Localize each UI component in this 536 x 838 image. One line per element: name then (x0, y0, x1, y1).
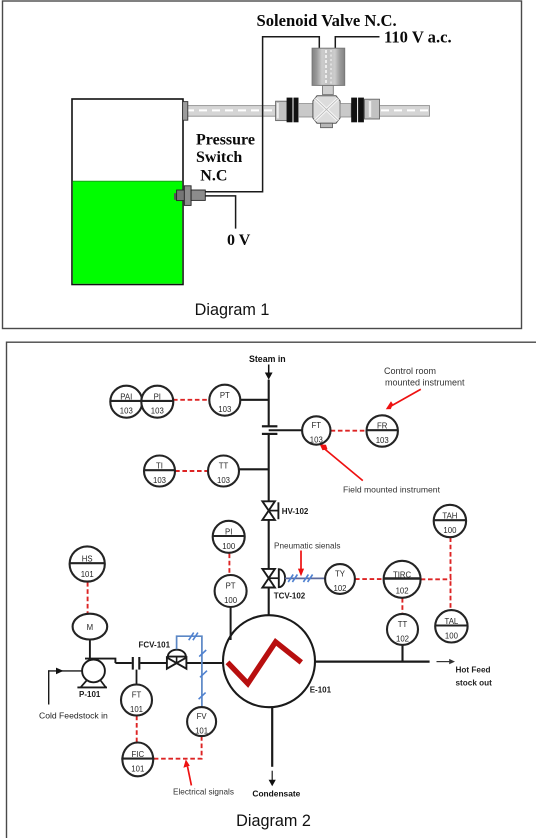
tank nozzle (183, 102, 188, 121)
instrument FR-103 (367, 415, 398, 446)
instrument TAL-100 (435, 610, 467, 642)
signal dashed TIRC-102 to TT-102 (401, 598, 403, 614)
svg-text:TT: TT (398, 620, 408, 629)
svg-text:Diagram 1: Diagram 1 (195, 301, 270, 319)
signal dashed PI-100 to PT-100 (228, 554, 230, 575)
instrument TAH-100 (434, 505, 466, 537)
instrument FV-101 (187, 707, 216, 736)
svg-text:Steam in: Steam in (249, 354, 286, 364)
svg-text:102: 102 (333, 584, 346, 593)
signal dashed TI-103 to TT-103 (175, 470, 208, 472)
hot feed pipe (315, 660, 430, 662)
red arrow pneumatic signals (300, 551, 302, 571)
signal dashed FT-103 to FR-103 (331, 430, 367, 432)
feed pipe segments (115, 662, 131, 664)
svg-text:FT: FT (132, 691, 142, 700)
instrument TIRC-102 (384, 561, 421, 598)
svg-text:101: 101 (130, 705, 143, 714)
svg-text:103: 103 (153, 476, 166, 485)
pneumatic hash marks on FCV line (189, 633, 207, 700)
svg-text:TI: TI (156, 462, 163, 471)
FE-101 flange bars (132, 657, 134, 670)
wire TT-103 branch (239, 468, 269, 470)
svg-text:TAL: TAL (445, 617, 459, 626)
svg-text:Pneumatic sienals: Pneumatic sienals (274, 542, 340, 551)
svg-text:Pressure: Pressure (196, 131, 255, 148)
wire W2 pressure switch to 0V (205, 196, 236, 229)
signal dashed FT-101 to FIC-101 (136, 716, 138, 743)
svg-text:TAH: TAH (442, 512, 457, 521)
svg-text:P-101: P-101 (79, 690, 101, 699)
svg-text:103: 103 (217, 476, 230, 485)
instrument TT-102 (387, 614, 418, 645)
svg-text:stock out: stock out (456, 679, 493, 688)
steam pipe (268, 380, 270, 426)
frame box 2 (7, 342, 536, 838)
svg-text:FR: FR (377, 422, 388, 431)
svg-text:103: 103 (120, 407, 133, 416)
hot feed arrow (437, 661, 451, 663)
signal dashed PI-103 to PT-103 (173, 399, 209, 401)
valve HV-102 (262, 501, 275, 520)
svg-text:PT: PT (226, 582, 236, 591)
pneumatic line TCV-102 to TY-102 (285, 577, 325, 579)
left flange bars (287, 98, 293, 123)
pipe left segment (183, 106, 276, 117)
signal dashed TAH-100 to TAL-100 (450, 537, 452, 610)
svg-text:Hot Feed: Hot Feed (456, 666, 491, 675)
signal dashed TY-102 to TIRC-102 (355, 578, 384, 580)
svg-text:103: 103 (310, 436, 323, 445)
right flange hub (365, 99, 380, 119)
pneumatic line FCV-101 to FV-101 (177, 636, 202, 707)
svg-text:100: 100 (445, 631, 459, 640)
svg-text:Cold Feedstock in: Cold Feedstock in (39, 711, 108, 721)
svg-text:TIRC: TIRC (393, 570, 412, 579)
svg-text:102: 102 (396, 634, 409, 643)
tank (72, 99, 183, 285)
svg-text:Diagram 2: Diagram 2 (236, 812, 311, 830)
right flange bars (351, 98, 357, 123)
orifice plate flanges (262, 425, 278, 427)
svg-text:110 V a.c.: 110 V a.c. (384, 28, 452, 47)
svg-text:FCV-101: FCV-101 (139, 640, 171, 649)
svg-text:M: M (87, 623, 94, 632)
svg-text:TT: TT (219, 462, 229, 471)
wire W3 solenoid to 110V (335, 37, 379, 50)
wire to FT-101 (136, 670, 138, 685)
svg-text:100: 100 (222, 542, 236, 551)
svg-text:101: 101 (131, 764, 144, 773)
pipe right segment (379, 106, 430, 117)
instrument FIC-101 (121, 743, 154, 777)
signal dashed TIRC-102 to alarm line (421, 578, 452, 580)
svg-text:Field mounted instrument: Field mounted instrument (343, 484, 441, 494)
wire orifice to FT-103 (269, 429, 303, 431)
instrument PT-103 (209, 385, 240, 416)
svg-text:103: 103 (151, 407, 164, 416)
instrument PAI-103 (110, 386, 142, 418)
valve bottom tab (321, 123, 333, 128)
svg-text:PT: PT (220, 391, 230, 400)
svg-text:100: 100 (224, 596, 238, 605)
red arrow electrical signals (188, 767, 192, 786)
svg-text:Switch: Switch (196, 149, 242, 166)
signal dashed FIC-101 to FV-101 (154, 736, 202, 758)
pneumatic hash marks on TCV line (288, 575, 312, 583)
wire PT-100 to exchanger (230, 607, 232, 640)
svg-text:101: 101 (81, 570, 94, 579)
wire PT-103 to pipe (240, 399, 269, 401)
instrument PI-103 (141, 386, 173, 418)
svg-text:PI: PI (154, 392, 161, 401)
motor M (73, 614, 108, 640)
valve outlet stub (340, 104, 351, 117)
svg-text:HV-102: HV-102 (282, 507, 309, 516)
valve inlet stub (299, 104, 314, 117)
svg-text:FV: FV (197, 712, 208, 721)
svg-text:102: 102 (396, 587, 409, 596)
instrument HS-101 (70, 546, 105, 581)
svg-text:0 V: 0 V (227, 232, 251, 249)
steam inlet arrow (268, 365, 270, 374)
pressure switch (174, 193, 178, 200)
pump P-101 (89, 640, 91, 659)
svg-text:mounted instrument: mounted instrument (385, 377, 465, 387)
solenoid stem (323, 85, 334, 94)
instrument TT-103 (208, 456, 239, 487)
svg-text:TY: TY (335, 570, 346, 579)
exchanger coil zigzag (228, 642, 302, 684)
svg-text:N.C: N.C (200, 168, 227, 185)
valve FCV-101 (167, 658, 187, 669)
svg-text:Electrical signals: Electrical signals (173, 788, 234, 797)
wire TT-102 to pipe (401, 645, 403, 662)
instrument TI-103 (144, 456, 175, 487)
svg-text:FT: FT (312, 421, 322, 430)
svg-text:E-101: E-101 (310, 685, 332, 694)
pipe highlight dashes (186, 109, 275, 111)
red arrow to FT-103 (324, 448, 363, 481)
tank liquid (green) (73, 181, 182, 283)
valve body (313, 96, 340, 123)
frame box 1 (3, 1, 522, 329)
svg-text:PI: PI (225, 527, 232, 536)
left flange hub (276, 101, 288, 120)
svg-text:100: 100 (443, 526, 457, 535)
signal dashed HS-101 to M (87, 582, 89, 614)
instrument PT-100 (215, 575, 247, 607)
red arrow to FR-103 (389, 389, 421, 407)
svg-text:Solenoid Valve N.C.: Solenoid Valve N.C. (257, 11, 397, 30)
svg-text:101: 101 (195, 727, 208, 736)
wire W1 pressure switch to solenoid (205, 37, 319, 192)
instrument FT-103 (302, 416, 330, 444)
heat exchanger E-101 (223, 615, 315, 707)
svg-text:Control room: Control room (384, 366, 436, 376)
condensate pipe (271, 707, 273, 767)
svg-text:FIC: FIC (132, 750, 145, 759)
instrument FT-101 (121, 685, 152, 716)
svg-text:Condensate: Condensate (252, 788, 300, 798)
suction line with arrow (49, 670, 83, 672)
svg-text:PAI: PAI (120, 392, 132, 401)
instrument PI-100 (213, 521, 245, 553)
valve TCV-102 (262, 569, 275, 588)
instrument TY-102 (325, 564, 355, 594)
svg-text:HS: HS (82, 555, 93, 564)
svg-text:103: 103 (376, 436, 389, 445)
svg-text:TCV-102: TCV-102 (274, 592, 306, 601)
svg-text:103: 103 (218, 405, 231, 414)
liquid surface line (73, 180, 182, 182)
